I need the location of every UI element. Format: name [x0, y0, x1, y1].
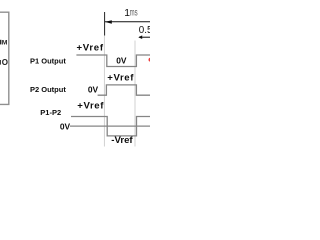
svg-text:P2 Output: P2 Output [30, 85, 66, 94]
svg-text:M: M [2, 40, 8, 47]
svg-text:+Vref: +Vref [107, 73, 134, 84]
reference line at x=104.4 (light) [103, 36, 105, 147]
svg-text:P1-P2: P1-P2 [40, 108, 61, 117]
P2 waveform trace [98, 85, 151, 95]
svg-text:O: O [2, 58, 8, 67]
svg-text:+Vref: +Vref [77, 42, 104, 53]
block label line 2 (partial letter before O) [0, 60, 1, 65]
block label line 1 (partial letter before M) [0, 40, 1, 45]
1 ms dimension arrow [105, 20, 150, 24]
svg-text:0V: 0V [88, 85, 99, 95]
0.5 ms dimension arrow [138, 35, 150, 39]
svg-text:0V: 0V [60, 122, 71, 132]
red dot (cut at right edge) [149, 58, 153, 62]
svg-text:ms: ms [130, 7, 138, 18]
svg-text:+Vref: +Vref [77, 101, 104, 112]
P1 waveform trace [76, 55, 150, 67]
P1-P2 0V baseline [70, 125, 150, 127]
reference line at x=135 (light) [134, 41, 136, 147]
1 ms tick (dark vertical) [104, 12, 106, 36]
svg-text:-Vref: -Vref [111, 135, 133, 146]
P1-P2 waveform trace [71, 117, 151, 136]
svg-text:0.5: 0.5 [139, 25, 150, 36]
svg-text:P1 Output: P1 Output [30, 56, 66, 65]
block box (cut off at left edge) [0, 12, 9, 104]
svg-text:0V: 0V [116, 55, 127, 65]
